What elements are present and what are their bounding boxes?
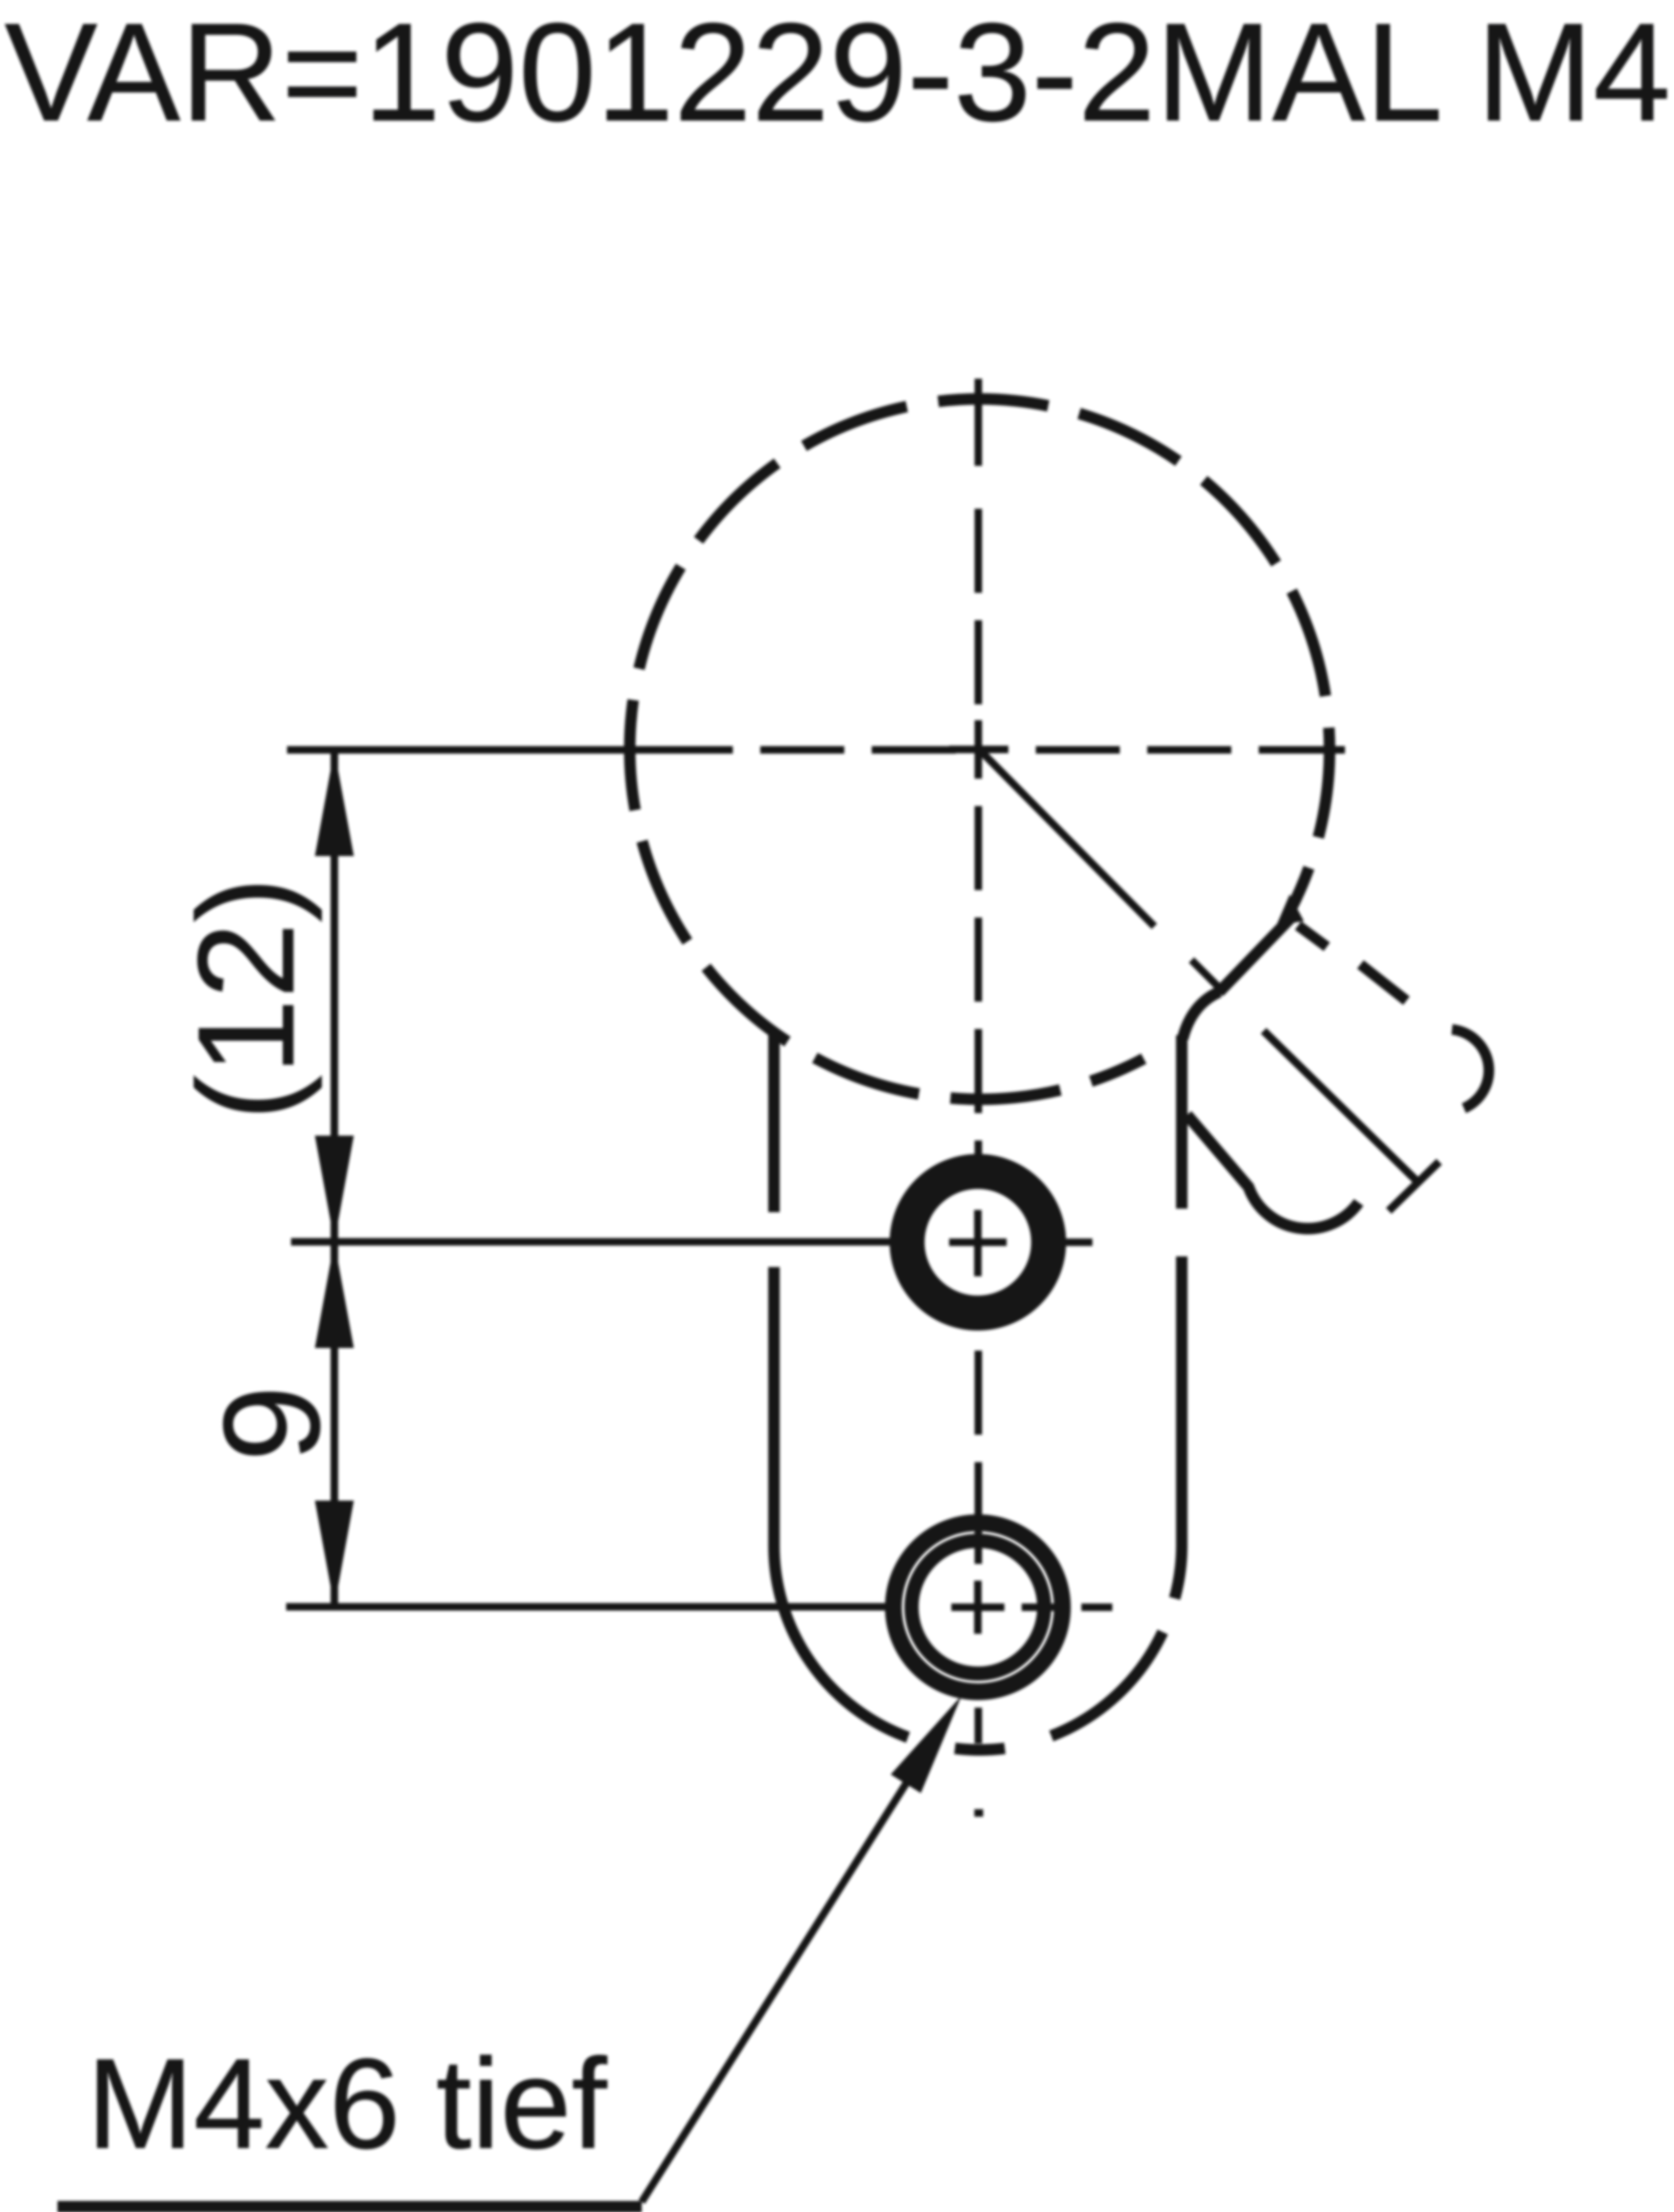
bottom hole centerline right dash	[1081, 1604, 1112, 1611]
stud axis centerline long segment	[1264, 1031, 1420, 1184]
arrowhead down to middle line	[315, 1136, 354, 1242]
large dashed circle (hidden boss outline, interrupted at stud sector)	[630, 399, 1329, 1099]
svg-text:M4x6 tief: M4x6 tief	[87, 2032, 608, 2175]
slot outline right arc corner + right side (hidden)	[1175, 1256, 1182, 1598]
arrowhead up to middle line	[315, 1242, 354, 1348]
stud ball-center cross tick	[1389, 1162, 1439, 1211]
slot outline bottom-right arc dash (hidden)	[1051, 1632, 1163, 1736]
callout underline	[57, 2201, 642, 2212]
stud lower-left side and end cap	[1187, 1115, 1359, 1229]
middle hole centerline right dash	[1064, 1239, 1092, 1246]
bottom extension line	[286, 1603, 890, 1611]
stud hidden side dash	[1360, 964, 1406, 1001]
bottom hole center cross	[951, 1581, 1004, 1634]
slot outline left side lower + bottom-left arc (hidden)	[774, 1267, 908, 1737]
slot outline right side upper dash (hidden)	[1176, 1035, 1188, 1209]
slot outline bottom arc dash (hidden)	[955, 1748, 1005, 1750]
centerline dot below slot	[974, 1809, 983, 1817]
dimension line	[331, 750, 338, 1607]
top extension line	[287, 746, 620, 754]
svg-text:(12): (12)	[169, 877, 323, 1121]
stud axis centerline dash	[1191, 960, 1225, 993]
middle hole center cross	[949, 1210, 1007, 1276]
stud axis centerline segment from circle center	[979, 749, 1154, 926]
stud hidden side first dash	[1298, 926, 1327, 947]
bottom hole core circle	[912, 1541, 1044, 1674]
stud shoulder edge	[1219, 915, 1294, 992]
vertical centerline	[975, 379, 982, 1743]
arrowhead up at top	[315, 750, 354, 856]
svg-text:VAR=1901229-3-2MAL M4: VAR=1901229-3-2MAL M4	[4, 0, 1671, 150]
slot outline left side (hidden)	[768, 1033, 780, 1212]
bottom hole thread outer circle	[893, 1523, 1062, 1692]
middle hole M4 ring	[907, 1171, 1049, 1313]
horizontal centerline of boss circle	[620, 746, 1345, 754]
middle extension line	[291, 1238, 893, 1246]
bottom hole centerline inner right dash	[1022, 1604, 1070, 1611]
arrowhead down at bottom	[315, 1501, 354, 1607]
svg-text:9: 9	[195, 1386, 348, 1462]
center cross of boss circle	[949, 720, 1008, 779]
stud neck fillet	[1183, 992, 1219, 1039]
stud hidden end-cap arc	[1452, 1029, 1489, 1108]
stud shoulder arrowhead	[1276, 895, 1304, 926]
leader line to M4 hole	[642, 1755, 924, 2202]
leader arrowhead	[891, 1696, 961, 1793]
